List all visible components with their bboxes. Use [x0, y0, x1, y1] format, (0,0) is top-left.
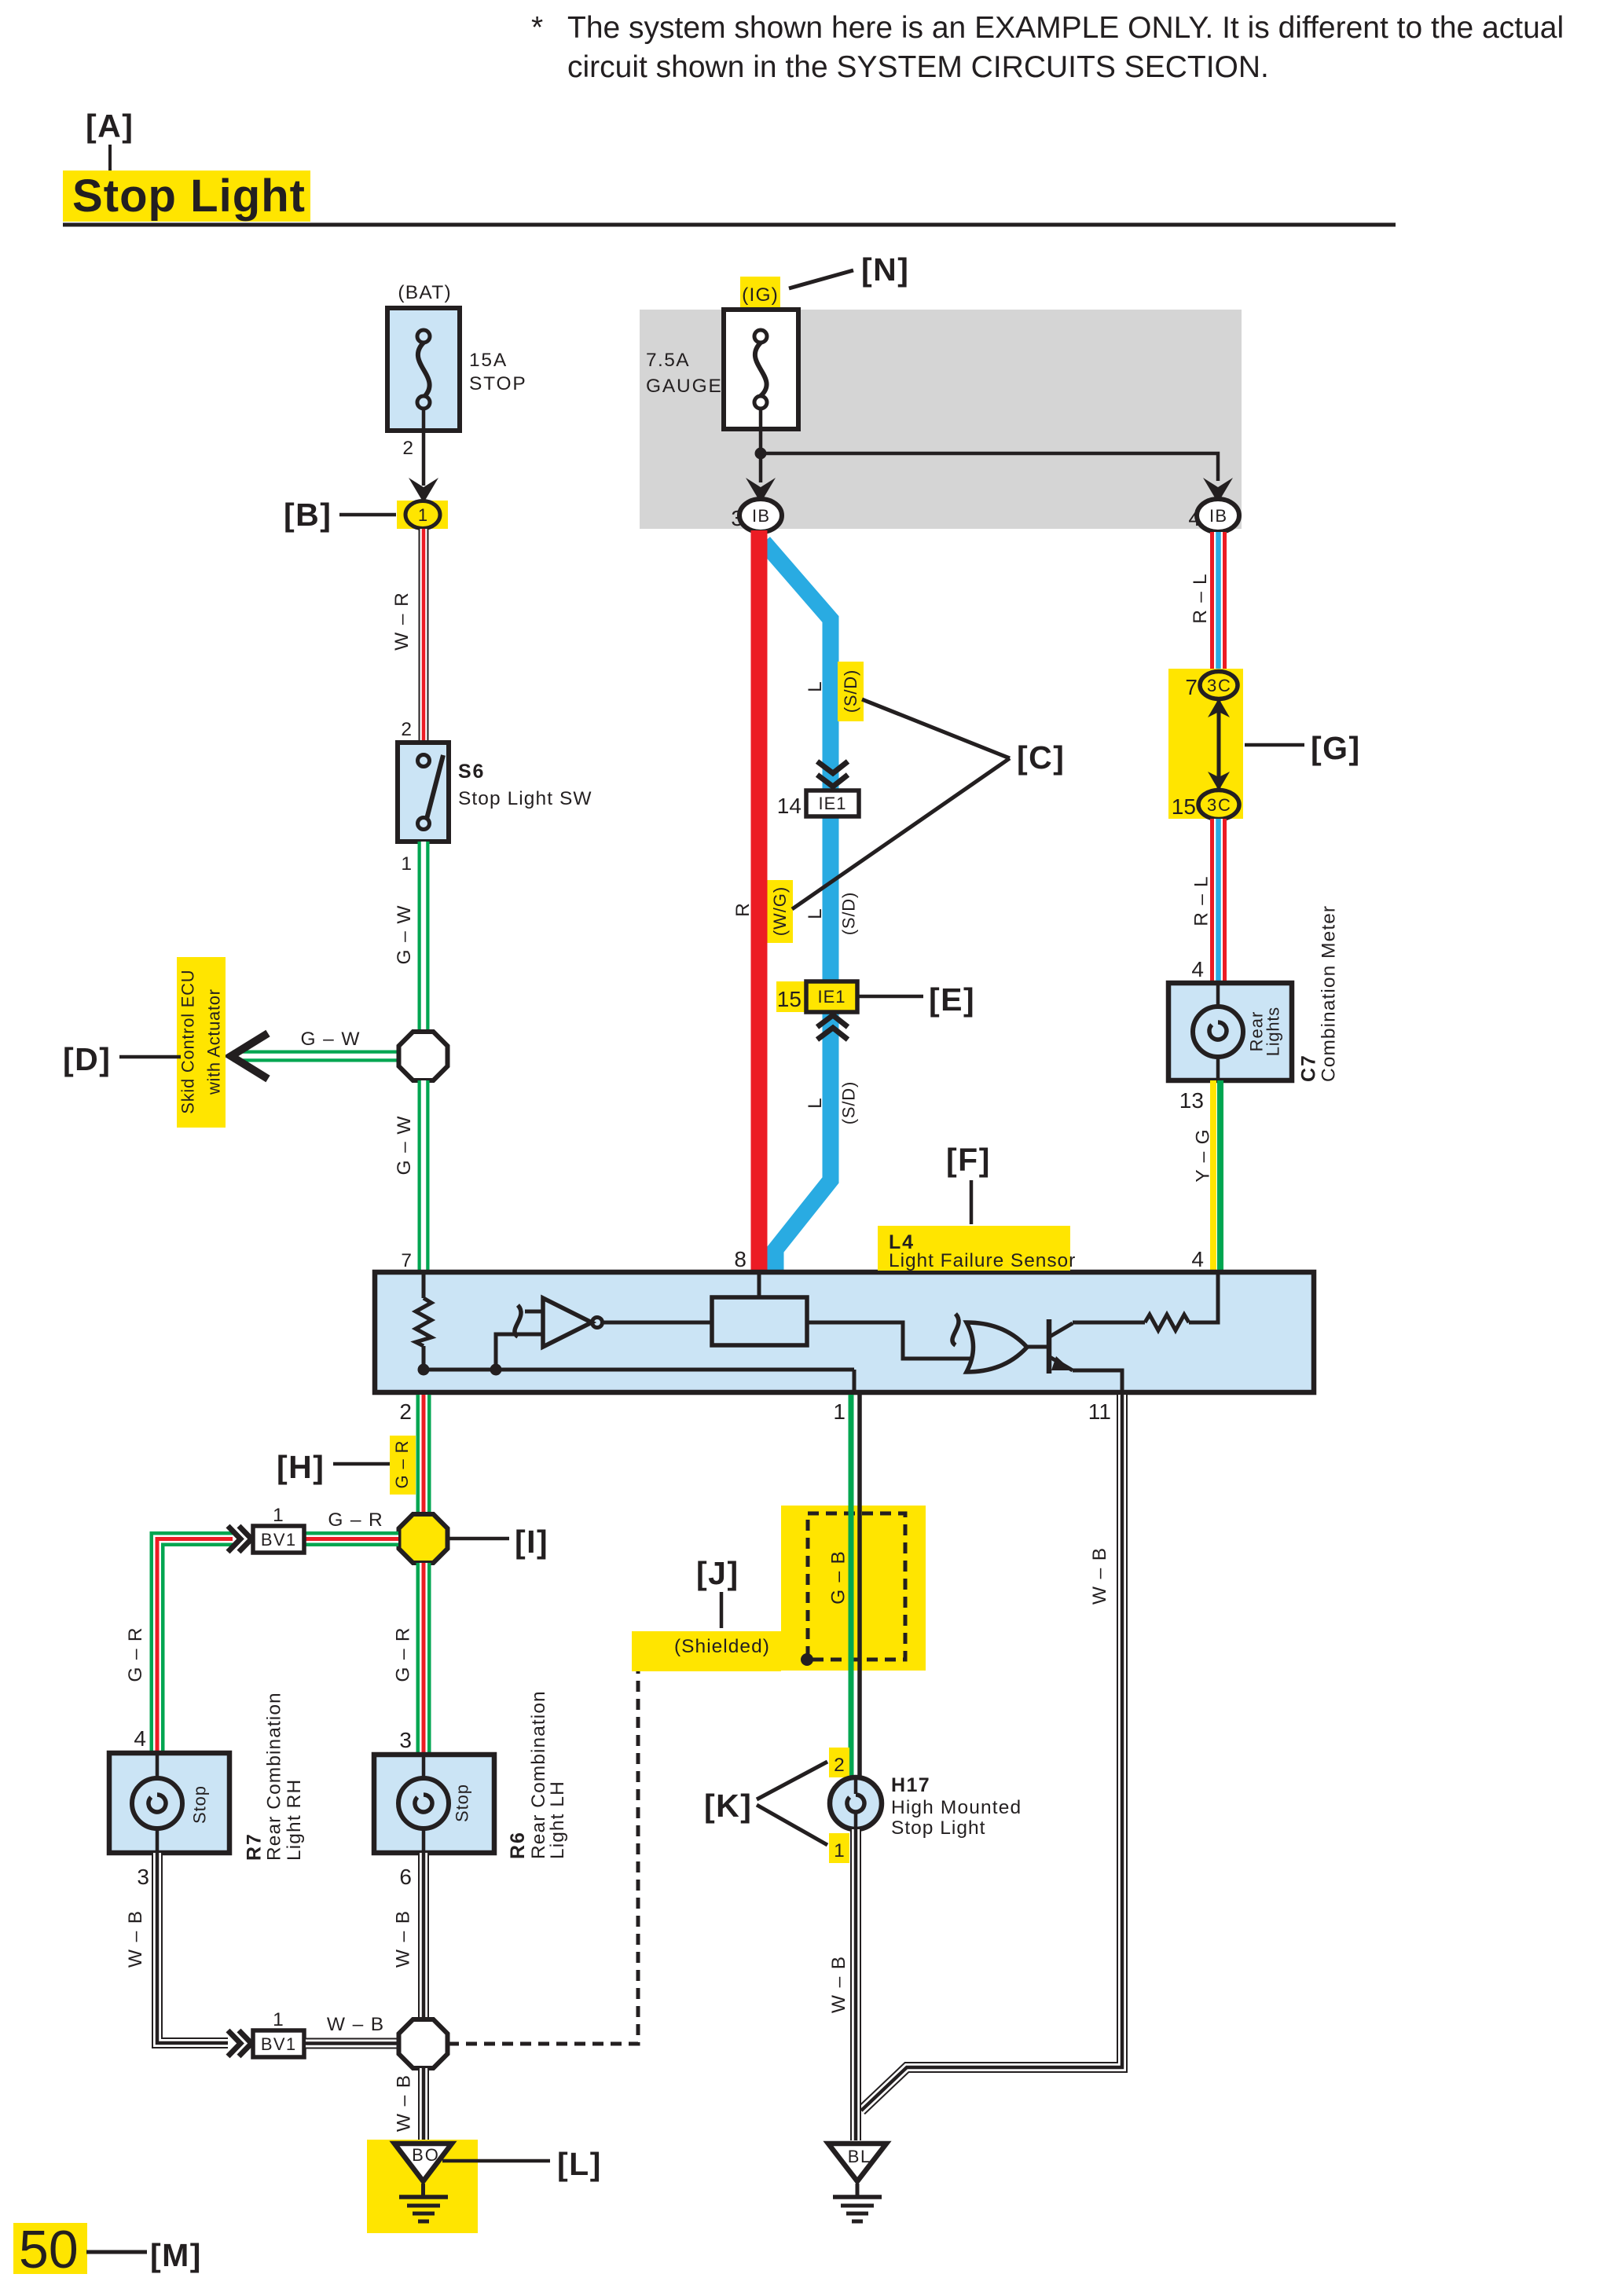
arrow into 3 IB — [746, 478, 776, 503]
OR gate — [967, 1322, 1027, 1372]
svg-text:G – B: G – B — [828, 1551, 849, 1605]
wire G-R from junction to R6 — [416, 1563, 431, 1755]
svg-text:1: 1 — [833, 1399, 846, 1424]
op-amp U1 inverter — [543, 1298, 603, 1347]
svg-text:W – B: W – B — [1089, 1548, 1110, 1605]
combination meter C7 Rear Lights — [1168, 983, 1292, 1080]
fuse 15A STOP (BAT) — [387, 282, 526, 431]
junction node octagon [I] — [399, 1514, 448, 1563]
svg-text:[I]: [I] — [515, 1524, 548, 1560]
wire G-W from S6 to junction — [418, 842, 430, 1033]
svg-text:15A: 15A — [469, 350, 507, 371]
svg-text:IB: IB — [1209, 506, 1227, 526]
junction node octagon — [399, 1032, 448, 1080]
svg-text:W – B: W – B — [393, 1911, 414, 1968]
svg-text:Stop: Stop — [190, 1786, 210, 1824]
label [D] — [63, 1041, 181, 1077]
wire W-B from H17 to ground BL — [850, 1829, 861, 2140]
svg-text:Stop Light: Stop Light — [891, 1817, 985, 1839]
svg-text:[K]: [K] — [704, 1788, 752, 1824]
svg-text:Combination Meter: Combination Meter — [1319, 906, 1340, 1082]
svg-text:G – R: G – R — [392, 1440, 412, 1488]
wire tag (W/G) — [767, 880, 793, 943]
title rule — [63, 223, 1396, 227]
label R6 Rear Combination Light LH — [507, 1691, 568, 1859]
svg-text:IE1: IE1 — [817, 987, 845, 1007]
label [A] — [86, 108, 134, 172]
wire relay block to OR gate — [807, 1322, 972, 1359]
svg-text:R: R — [732, 903, 754, 917]
title Stop Light — [63, 171, 310, 222]
svg-text:Y – G: Y – G — [1193, 1129, 1214, 1182]
svg-text:2: 2 — [399, 1399, 412, 1424]
wire G-R from L4 pin 2 to junction [I] — [416, 1395, 431, 1517]
svg-text:C7: C7 — [1298, 1055, 1320, 1082]
shield dashed box — [808, 1513, 905, 1660]
svg-text:3: 3 — [137, 1865, 149, 1889]
svg-text:[H]: [H] — [277, 1449, 325, 1485]
svg-text:[C]: [C] — [1017, 739, 1065, 776]
svg-text:W – B: W – B — [327, 2014, 383, 2035]
wire W-B from R7 to BV1 lower — [157, 1853, 228, 2043]
light failure sensor L4 box — [375, 1272, 1314, 1392]
L4 internal resistor pin7 — [416, 1272, 431, 1370]
svg-text:L: L — [805, 908, 826, 919]
svg-text:7.5A: 7.5A — [646, 350, 689, 371]
fuse 7.5A GAUGE (IG) — [646, 277, 798, 431]
svg-text:H17: H17 — [891, 1774, 930, 1796]
svg-text:R – L: R – L — [1191, 876, 1212, 926]
wire G-W from junction to L4 pin 7 — [418, 1080, 430, 1271]
svg-text:[B]: [B] — [284, 497, 332, 533]
svg-text:W – R: W – R — [391, 592, 413, 651]
destination Skid Control ECU with Actuator — [177, 957, 226, 1128]
svg-text:with Actuator: with Actuator — [204, 989, 224, 1095]
wire tag G-R highlighted [H] — [390, 1436, 416, 1495]
svg-text:15: 15 — [1172, 794, 1196, 819]
svg-text:11: 11 — [1088, 1399, 1111, 1424]
ground BL — [828, 2144, 886, 2221]
wire Y-G from C7 to L4 pin 4 — [1213, 1080, 1220, 1271]
svg-text:L: L — [805, 1098, 826, 1109]
wire from IG fuse down — [759, 429, 763, 482]
svg-text:(BAT): (BAT) — [398, 282, 450, 303]
double chevron into BV1 lower — [228, 2030, 251, 2056]
svg-text:Light RH: Light RH — [284, 1780, 305, 1861]
wire L (blue) from 3 IB to L4 pin 8 — [764, 542, 831, 1275]
label [K] with pointer lines — [704, 1762, 827, 1845]
svg-text:(W/G): (W/G) — [770, 887, 790, 936]
wire junction bus to pin 1 — [853, 1370, 857, 1390]
wire R (red) from 3 IB to L4 pin 8 — [751, 530, 768, 1271]
svg-text:G – R: G – R — [125, 1627, 146, 1682]
switch S6 Stop Light SW — [398, 743, 592, 842]
label [J] — [696, 1555, 739, 1628]
wire pin8 to relay block — [757, 1275, 761, 1297]
svg-text:3C: 3C — [1207, 795, 1231, 815]
svg-text:2: 2 — [401, 719, 412, 740]
svg-text:circuit shown in the SYSTEM CI: circuit shown in the SYSTEM CIRCUITS SEC… — [567, 50, 1269, 84]
svg-text:[M]: [M] — [150, 2237, 202, 2273]
label [L] — [442, 2146, 602, 2182]
svg-text:(IG): (IG) — [742, 284, 778, 306]
svg-text:1: 1 — [418, 505, 427, 525]
svg-text:Stop Light: Stop Light — [72, 171, 305, 222]
wire W-B overlay at merge — [850, 2086, 861, 2140]
svg-text:2: 2 — [834, 1755, 845, 1776]
svg-text:3: 3 — [399, 1728, 412, 1752]
svg-text:(Shielded): (Shielded) — [674, 1636, 769, 1657]
double chevron out of 15 IE1 — [817, 1015, 848, 1040]
svg-text:13: 13 — [1179, 1088, 1204, 1113]
connector pair 3C highlighted [G] — [1168, 669, 1243, 820]
svg-text:Stop Light SW: Stop Light SW — [458, 788, 592, 809]
connector 4 IB — [1188, 499, 1239, 532]
lamp R6 Rear Combination Light LH — [374, 1755, 494, 1853]
junction node octagon lower — [399, 2019, 448, 2068]
L4 internal resistor right — [1073, 1275, 1218, 1330]
page number 50 [M] — [13, 2220, 202, 2279]
wire W-B from BV1 lower to junction — [306, 2038, 399, 2049]
svg-text:[D]: [D] — [63, 1041, 111, 1077]
connector BV1 lower — [253, 2030, 304, 2057]
connector 15 IE1 highlighted — [776, 981, 859, 1012]
svg-text:R – L: R – L — [1190, 574, 1211, 623]
svg-text:G – W: G – W — [300, 1029, 360, 1050]
arrow into 4 IB — [1203, 478, 1233, 503]
ground BO highlighted — [367, 2140, 478, 2233]
lamp H17 High Mounted Stop Light — [830, 1777, 882, 1831]
label [I] — [449, 1524, 548, 1560]
svg-text:IB: IB — [752, 506, 769, 526]
svg-text:7: 7 — [1185, 675, 1198, 699]
svg-text:Skid Control ECU: Skid Control ECU — [178, 970, 198, 1113]
wire to 4 IB — [761, 453, 1218, 481]
svg-text:G – W: G – W — [394, 905, 415, 965]
connector 3 IB — [731, 499, 782, 532]
label [H] — [277, 1449, 390, 1485]
wire from fuse to connector [B] — [422, 431, 426, 486]
svg-text:W – B: W – B — [394, 2075, 415, 2132]
svg-text:14: 14 — [777, 794, 801, 818]
label [C] with pointer lines — [792, 699, 1065, 909]
svg-text:[A]: [A] — [86, 108, 134, 144]
svg-text:7: 7 — [401, 1250, 412, 1271]
transistor Q1 — [1027, 1319, 1073, 1374]
label [B] — [284, 497, 396, 533]
svg-text:[N]: [N] — [861, 251, 909, 288]
wire G-W branch to skid control ECU — [233, 1051, 402, 1062]
svg-text:Stop: Stop — [453, 1784, 472, 1822]
svg-text:R7: R7 — [244, 1834, 266, 1861]
label [F] — [946, 1142, 991, 1224]
svg-text:*: * — [531, 11, 543, 45]
wire G-R corner down to R7 — [157, 1539, 233, 1754]
svg-text:BV1: BV1 — [261, 2034, 295, 2054]
junction dot left — [418, 1364, 430, 1376]
svg-text:High Mounted: High Mounted — [891, 1797, 1021, 1818]
label [G] — [1245, 730, 1361, 766]
svg-text:2: 2 — [402, 438, 413, 459]
svg-text:[E]: [E] — [929, 981, 975, 1018]
svg-text:Light LH: Light LH — [547, 1781, 568, 1859]
label [N] — [789, 251, 909, 288]
svg-text:IE1: IE1 — [818, 794, 846, 813]
svg-text:50: 50 — [19, 2220, 79, 2279]
arrow into connector 1 — [409, 478, 438, 503]
shield ground dashed wire from junction — [448, 1660, 805, 2044]
svg-text:W – B: W – B — [828, 1957, 849, 2013]
shield highlight yellow region — [632, 1506, 926, 1671]
svg-text:Lights: Lights — [1264, 1007, 1283, 1056]
svg-text:Rear Combination: Rear Combination — [528, 1691, 549, 1859]
OR gate squiggle input — [952, 1314, 959, 1345]
svg-text:(S/D): (S/D) — [841, 670, 860, 713]
svg-text:[L]: [L] — [557, 2146, 602, 2182]
svg-text:STOP: STOP — [469, 373, 526, 394]
tag L4 Light Failure Sensor — [878, 1226, 1075, 1271]
wire W-B from R6 to junction — [418, 1853, 429, 2019]
svg-text:1: 1 — [401, 853, 412, 875]
double chevron into 14 IE1 — [817, 761, 848, 787]
double chevron into BV1 upper — [228, 1526, 251, 1552]
wire W-B from L4 pin 11 — [861, 1395, 1122, 2111]
wire tag (S/D) upper — [838, 662, 864, 721]
wire W-R from connector 1 to S6 — [419, 528, 429, 743]
svg-text:15: 15 — [777, 987, 801, 1011]
label R7 Rear Combination Light RH — [244, 1693, 306, 1861]
svg-text:(S/D): (S/D) — [839, 1082, 859, 1125]
wire W-B from junction to ground BO — [418, 2068, 429, 2140]
wire R-L from 15 3C to C7 pin 4 — [1210, 819, 1227, 983]
arrow to skid control ECU — [231, 1033, 268, 1079]
svg-text:[G]: [G] — [1311, 730, 1361, 766]
svg-text:BL: BL — [848, 2147, 871, 2166]
svg-text:BO: BO — [412, 2145, 438, 2165]
label [E] — [859, 981, 975, 1018]
junction dot on shield — [801, 1653, 813, 1666]
svg-text:G – R: G – R — [393, 1627, 414, 1682]
svg-text:GAUGE: GAUGE — [646, 376, 721, 397]
connector BV1 upper — [253, 1526, 304, 1553]
label C7 Combination Meter — [1298, 906, 1340, 1082]
pin 1 of H17 — [829, 1833, 849, 1863]
wire inverter to relay block — [603, 1321, 712, 1325]
svg-text:The system shown here is an EX: The system shown here is an EXAMPLE ONLY… — [567, 11, 1564, 45]
wire G-R left branch from BV1 to junction — [306, 1531, 398, 1546]
svg-text:8: 8 — [734, 1247, 746, 1271]
junction dot mid — [490, 1364, 502, 1376]
svg-text:[J]: [J] — [696, 1555, 739, 1591]
L4 internal bus wire — [424, 1368, 854, 1372]
svg-text:Rear Combination: Rear Combination — [264, 1693, 285, 1861]
gray junction block background — [640, 310, 1242, 529]
label H17 High Mounted Stop Light — [891, 1774, 1021, 1839]
note text top — [531, 11, 1564, 84]
svg-text:G – R: G – R — [328, 1509, 382, 1531]
svg-text:L: L — [805, 681, 826, 692]
svg-text:G – W: G – W — [394, 1116, 415, 1176]
svg-text:4: 4 — [1191, 957, 1204, 981]
svg-text:4: 4 — [134, 1726, 146, 1751]
wire emitter to pin 11 — [1073, 1370, 1122, 1390]
junction dot below IG fuse — [755, 448, 767, 460]
svg-text:1: 1 — [834, 1840, 845, 1861]
inverter squiggle input — [515, 1305, 521, 1337]
svg-text:1: 1 — [273, 1505, 284, 1526]
connector 14 IE1 — [777, 790, 859, 818]
svg-text:R6: R6 — [507, 1832, 529, 1859]
wire R-L from 4 IB to 7 3C — [1210, 532, 1227, 670]
wire from junction to inverter — [496, 1334, 543, 1370]
relay block — [712, 1297, 807, 1345]
svg-text:W – B: W – B — [125, 1911, 146, 1968]
lamp R7 Rear Combination Light RH — [109, 1753, 229, 1853]
svg-text:[F]: [F] — [946, 1142, 991, 1178]
svg-text:4: 4 — [1191, 1247, 1204, 1271]
svg-text:(S/D): (S/D) — [839, 893, 859, 936]
svg-text:Light Failure Sensor: Light Failure Sensor — [889, 1250, 1075, 1271]
svg-text:1: 1 — [273, 2009, 284, 2030]
svg-text:3C: 3C — [1207, 676, 1231, 695]
wire G-B from L4 pin 1 to H17 — [851, 1395, 860, 1779]
svg-text:BV1: BV1 — [261, 1530, 295, 1550]
connector node 1 [B] — [397, 501, 448, 529]
pin 2 of H17 — [829, 1748, 849, 1777]
svg-text:S6: S6 — [458, 761, 483, 783]
svg-text:6: 6 — [399, 1865, 412, 1889]
